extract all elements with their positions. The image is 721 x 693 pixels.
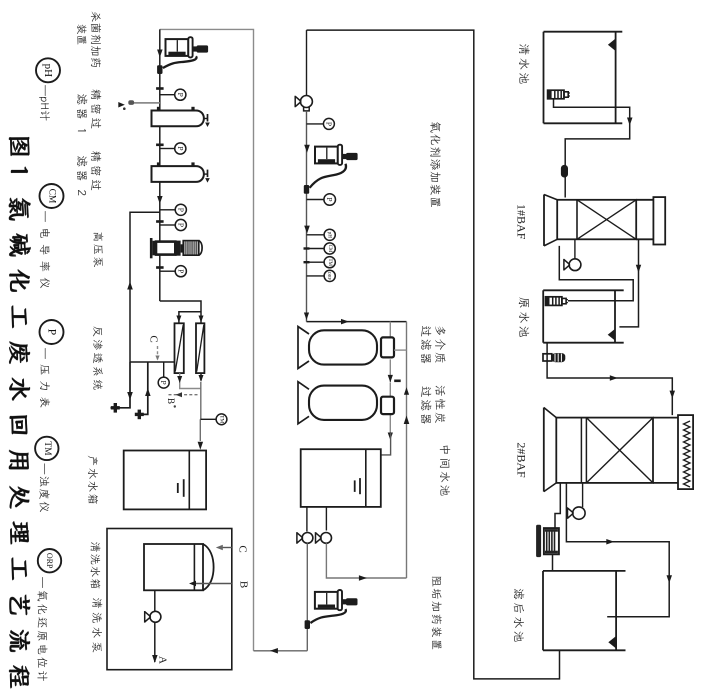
concentrate recirc line [130, 212, 160, 362]
label lbl-qingxishuixiang [91, 542, 101, 588]
drain branch 2 [138, 362, 148, 414]
raw pool pump discharge to 1#BAF bottom [559, 246, 633, 301]
svg-text:P: P [159, 381, 168, 385]
label leg-cm [40, 211, 50, 288]
filter inlet line (gray) through nozzles [389, 322, 391, 338]
svg-text:P: P [46, 329, 58, 335]
svg-text:A: A [156, 656, 168, 664]
1#BAF backwash pump [574, 239, 576, 259]
cleaning water unit box [107, 529, 232, 670]
label lbl-guolvqi2 [421, 386, 431, 423]
pH analyser [307, 234, 325, 236]
2#BAF tower [543, 408, 545, 492]
clean water pool [544, 31, 623, 33]
clean pool discharge pipe [554, 99, 630, 198]
connection C arrow into tank [222, 547, 232, 549]
label leg-orp [37, 577, 47, 681]
caption 图1 [9, 137, 31, 688]
svg-text:P: P [176, 146, 185, 150]
pressure gauge PI-3 [160, 209, 175, 211]
pressure gauge PI-4 [160, 224, 175, 226]
middle main line [306, 30, 308, 96]
feed riser to filters [307, 321, 407, 323]
RO feed header line [130, 361, 175, 363]
junction tick [156, 266, 164, 269]
inflow arrow [608, 329, 615, 341]
carbon filter vessel [298, 382, 309, 424]
turbidity meter TM [201, 418, 217, 420]
label leg-ph [39, 85, 50, 121]
connection B dashed line [169, 394, 200, 396]
junction tick [156, 87, 164, 90]
intermediate water pool [301, 449, 381, 507]
1#BAF neck and top cap [636, 199, 653, 201]
pressure gauge [307, 199, 324, 201]
legend ORP meter [38, 549, 61, 572]
legend turbidity meter [35, 437, 58, 460]
submersible pump [546, 297, 562, 306]
label lbl-yanghuaji [430, 122, 441, 207]
2#BAF backwash pump [582, 483, 584, 507]
label lbl-zhongjian [440, 446, 451, 496]
inflow arrow [608, 39, 616, 52]
junction tick [394, 380, 401, 383]
label lbl-yuanshuichi [519, 297, 530, 337]
filtered water pool [543, 570, 626, 572]
svg-text:pH: pH [327, 232, 333, 239]
pool outlet 1 [306, 507, 308, 532]
inflow arrow [608, 636, 616, 648]
drain valve 2 [138, 410, 141, 420]
label lbl-lvqi2 [77, 156, 87, 195]
label lbl-guolvqi1 [421, 326, 431, 363]
svg-text:1#BAF: 1#BAF [514, 204, 528, 240]
RO membrane module 2 [196, 323, 204, 373]
flow arrow [157, 196, 163, 204]
label lbl-zugou [432, 577, 442, 650]
label lbl-jingmi2a [91, 151, 101, 190]
pressure gauge PI-6 [163, 362, 165, 377]
svg-text:C: C [148, 335, 160, 342]
lift pump (black submersible) [536, 525, 541, 557]
connection C (dashed) [157, 346, 159, 362]
svg-text:TM: TM [42, 441, 52, 456]
raw pool outlet (to 2#BAF) [547, 343, 672, 415]
filter interconnect [394, 349, 407, 351]
label lbl-lvqi1 [77, 94, 87, 131]
transfer pump 2 [321, 533, 332, 544]
cleaning water tank [144, 544, 203, 590]
flow arrow [341, 319, 349, 325]
RO product line down to tank [200, 373, 202, 380]
conductivity analyser [304, 247, 310, 249]
label lbl-qingshuichi [519, 44, 530, 83]
label lbl-qingxishuibeng [92, 598, 102, 652]
feed pump [300, 96, 312, 108]
svg-text:CM: CM [47, 189, 57, 204]
svg-text:ORP: ORP [45, 553, 54, 569]
flow arrow [177, 376, 182, 383]
flow arrow [304, 313, 309, 321]
cleaning water pump [150, 611, 161, 622]
pressure gauge [307, 123, 324, 125]
antiscalant dosing pump [315, 592, 338, 609]
product water tank [124, 451, 206, 510]
label lbl-jingmi1a [91, 89, 101, 128]
transfer pump 1 [302, 533, 313, 544]
recycle return pipe (gray, to process start) [160, 29, 254, 650]
drain branch 1 [116, 362, 131, 408]
svg-text:pH: pH [42, 64, 54, 78]
dosing pump P-1 (biocide) [166, 39, 189, 56]
1#BAF tower [543, 195, 545, 246]
2#BAF neck and corrugated cap [653, 417, 678, 419]
label lbl-gaoyabeng [93, 232, 103, 267]
media filter top nozzle [381, 337, 394, 357]
legend pH meter [36, 58, 60, 82]
label leg-p [40, 348, 50, 407]
RO feed branch [179, 312, 201, 323]
flow arrow into product tank [198, 442, 204, 450]
svg-text:CM: CM [327, 245, 332, 253]
return to recycle pipe [254, 650, 308, 652]
carbon filter top nozzle [381, 397, 394, 414]
flow arrow into RO-2 [199, 316, 204, 323]
label lbl-huoxingtan [435, 386, 445, 423]
2#BAF drain to filtered pool [555, 483, 560, 528]
svg-text:P: P [324, 122, 333, 126]
drain valve 1 [114, 403, 117, 413]
submersible pump [548, 90, 564, 99]
raw water pool [543, 289, 624, 291]
svg-text:P: P [325, 197, 334, 201]
pressure gauge PI-1 [160, 94, 175, 96]
flow arrow [304, 145, 310, 153]
label lbl-duojiezhi [435, 326, 446, 362]
legend pressure gauge [40, 320, 64, 344]
svg-text:ORP: ORP [327, 272, 332, 281]
intermediate pool inlet [381, 433, 391, 455]
label lbl-lvhou [514, 589, 525, 642]
water level marks [183, 479, 185, 497]
label lbl-fanshentou [93, 326, 103, 389]
zigzag [684, 421, 691, 487]
1#BAF media X [577, 200, 636, 240]
svg-text:TM: TM [327, 258, 332, 266]
turbidity analyser [304, 261, 310, 263]
junction tick [156, 220, 164, 223]
svg-text:P: P [176, 208, 185, 212]
pool outlet 2 [325, 507, 327, 531]
drain stub [111, 407, 114, 409]
svg-text:C: C [237, 545, 249, 552]
svg-text:P: P [176, 223, 185, 227]
lift pump (black submersible) [543, 354, 552, 361]
svg-text:2#BAF: 2#BAF [514, 442, 528, 478]
tank outlet to cleaning pump [154, 590, 156, 611]
pressure gauge PI-2 [160, 148, 175, 150]
svg-text:B: B [166, 398, 176, 404]
cartridge filter F-2 [152, 166, 204, 182]
pipe to RO feed [160, 301, 201, 323]
recirculation riser (gray) [406, 322, 408, 578]
RO membrane module 1 [175, 323, 184, 373]
water level marks [359, 478, 361, 494]
1#BAF outlet to raw pool [619, 239, 638, 327]
high pressure pump [150, 238, 153, 258]
flow arrow [304, 226, 310, 234]
antiscalant line down [306, 543, 308, 651]
svg-text:P: P [176, 269, 185, 273]
ORP analyser [307, 275, 325, 277]
oxidant dosing pump [315, 147, 338, 164]
cartridge filter F-1 [152, 111, 204, 127]
2#BAF media X [586, 418, 653, 483]
label lbl-shajunji [91, 11, 101, 67]
flow arrow into RO-1 [176, 316, 181, 323]
recirc line from pump2 [326, 543, 406, 578]
pump discharge to A [154, 622, 156, 662]
RO interstage line (gray) [180, 373, 201, 388]
main feed pipe from filtered-water pool (top route) [307, 30, 560, 679]
svg-text:P: P [176, 93, 185, 97]
legend conductivity meter [40, 184, 64, 208]
svg-text:TM: TM [219, 415, 225, 423]
flow arrow up [127, 282, 133, 290]
main process line (security filters / RO train) [159, 29, 161, 301]
2#BAF outlet to filtered pool [566, 483, 669, 617]
label lbl-zhuangzhi [77, 24, 86, 44]
label leg-tm [39, 463, 49, 512]
inline valve (black capsule) [561, 165, 568, 178]
connection B arrow into tank [195, 583, 232, 585]
pressure gauge PI-5 [160, 270, 175, 272]
label lbl-chanshui [88, 456, 98, 504]
connection A (dashed stub + arrow) [133, 102, 160, 104]
media filter vessel [298, 327, 309, 369]
flow arrow [157, 50, 163, 58]
svg-text:B: B [238, 581, 250, 588]
junction tick [156, 144, 164, 147]
